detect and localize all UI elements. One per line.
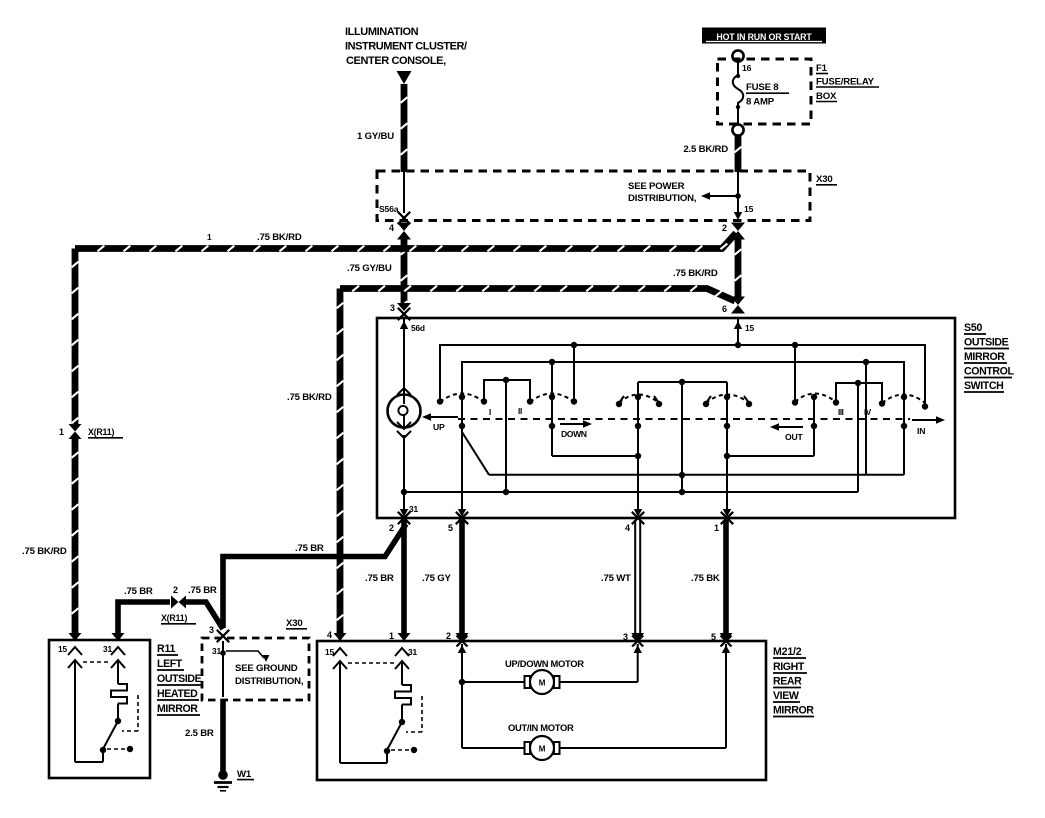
svg-text:FUSE 8: FUSE 8 (746, 82, 779, 93)
svg-text:3: 3 (623, 632, 628, 642)
wire node 31 horizontal in S50 (404, 491, 858, 493)
wire .75 GY/BU vertical (401, 239, 408, 307)
switch DOWN contact group (530, 362, 641, 459)
connector ring bottom of fuse F1 (732, 124, 743, 135)
lamp illumination in S50 (388, 388, 421, 438)
svg-text:S56a: S56a (379, 204, 399, 214)
switch UP contact group (440, 394, 484, 511)
connector pin 2 bowtie (X30) (722, 223, 745, 240)
wire dashed pin link R11 (83, 661, 110, 663)
svg-text:16: 16 (742, 63, 752, 73)
svg-text:R11: R11 (157, 643, 176, 655)
wire motor feed junction (459, 679, 465, 748)
label .75 WT (601, 573, 631, 584)
svg-text:II: II (518, 407, 522, 416)
label S50 OUTSIDE MIRROR CONTROL SWITCH (964, 322, 1015, 392)
label .75 BK/RD (left) (22, 546, 67, 557)
svg-text:FUSE/RELAY: FUSE/RELAY (816, 77, 875, 88)
wire .75 BK/RD left drop to X(R11) (72, 249, 79, 425)
wire .75 BR branch diagonal-left (223, 524, 406, 628)
svg-text:SWITCH: SWITCH (964, 380, 1003, 392)
svg-text:M: M (539, 745, 546, 754)
svg-text:UP: UP (433, 422, 445, 432)
label .75 BR (R11) (124, 586, 153, 597)
switch OUT contact group (727, 394, 836, 457)
svg-text:.75 BK: .75 BK (691, 573, 720, 584)
wire .75 WT S50 pin4 to M21/2 pin3 (631, 520, 644, 641)
arrow to power distribution (701, 192, 741, 200)
svg-text:HOT IN RUN OR START: HOT IN RUN OR START (716, 32, 812, 42)
svg-text:DISTRIBUTION,: DISTRIBUTION, (628, 193, 697, 204)
label X30 (ground) (286, 618, 307, 629)
svg-text:1: 1 (714, 523, 719, 533)
label .75 BK/RD (top) (257, 232, 302, 243)
label .75 BK/RD (mid) (673, 268, 718, 279)
wire lamp to node 31 (401, 435, 407, 495)
svg-text:.75 GY/BU: .75 GY/BU (347, 263, 392, 274)
label W1 (237, 769, 254, 780)
svg-text:CONTROL: CONTROL (964, 366, 1015, 378)
pin 15 of X30 (power) (734, 171, 754, 220)
svg-text:1: 1 (207, 232, 212, 242)
label IN with arrow (912, 416, 945, 436)
svg-text:4: 4 (389, 223, 394, 233)
wire dashed pin link M21/2 (348, 662, 394, 664)
svg-text:X30: X30 (816, 174, 832, 185)
wire .75 BK S50 pin1 to M21/2 pin5 (720, 520, 733, 641)
svg-text:6: 6 (722, 304, 727, 314)
label HOT IN RUN OR START (702, 28, 826, 44)
label F1 FUSE/RELAY BOX (816, 63, 879, 102)
label .75 BK/RD (right drop) (287, 392, 332, 403)
svg-text:.75 BK/RD: .75 BK/RD (673, 268, 718, 279)
connector X(R11) pin 2 (171, 585, 186, 609)
svg-text:CENTER CONSOLE,: CENTER CONSOLE, (346, 55, 446, 67)
svg-text:BOX: BOX (816, 91, 837, 102)
svg-text:2: 2 (446, 631, 451, 641)
label 2.5 BR (185, 728, 214, 739)
svg-text:5: 5 (448, 523, 453, 533)
svg-text:M: M (539, 679, 546, 688)
wire lower link in S50 (489, 474, 904, 476)
label OUT with arrow (770, 423, 803, 442)
label DOWN with arrow (560, 420, 592, 439)
wire 2.5 BK/RD between connectors (735, 239, 742, 297)
connector pin 4 bowtie (X30) (389, 223, 411, 240)
fuse F1 FUSE 8 8AMP element (733, 62, 744, 125)
svg-text:15: 15 (745, 323, 754, 333)
svg-text:DISTRIBUTION,: DISTRIBUTION, (235, 676, 304, 687)
label OUT/IN MOTOR (508, 722, 574, 733)
label 2.5 BK/RD (683, 144, 728, 155)
wire .75 GY S50 pin5 to M21/2 pin2 (456, 520, 469, 641)
svg-text:2: 2 (722, 223, 727, 233)
svg-text:W1: W1 (237, 769, 252, 780)
svg-text:OUT/IN MOTOR: OUT/IN MOTOR (508, 722, 574, 733)
wire .75 BK/RD drop to M21/2 pin 15 (334, 289, 347, 642)
svg-text:2: 2 (389, 523, 394, 533)
svg-text:1: 1 (389, 631, 394, 641)
svg-text:LEFT: LEFT (157, 658, 183, 670)
heater element M21/2 (395, 661, 411, 725)
wire .75 BK/RD to R11 (horizontal) (75, 233, 736, 251)
svg-text:2.5 BR: 2.5 BR (185, 728, 214, 739)
wire B pivot rail in S50 (462, 359, 904, 397)
svg-text:15: 15 (58, 644, 67, 654)
svg-text:31: 31 (212, 646, 221, 656)
svg-text:MIRROR: MIRROR (773, 705, 814, 717)
label UP/DOWN MOTOR (505, 658, 584, 669)
label 1 GY/BU (357, 131, 394, 142)
label footnote 1 (207, 232, 212, 242)
label UP with arrow (422, 413, 458, 432)
svg-text:UP/DOWN MOTOR: UP/DOWN MOTOR (505, 658, 584, 669)
connector X30 power distribution box (dashed) (377, 171, 810, 221)
pin 3 of ground connector X30 (209, 625, 229, 642)
wire 2.5 BR to ground W1 (220, 699, 226, 772)
svg-text:56d: 56d (411, 323, 425, 333)
svg-text:1: 1 (59, 427, 64, 437)
fuse/relay box F1 (dashed) (718, 59, 812, 124)
label 2 .75 BR (188, 585, 217, 596)
svg-text:DOWN: DOWN (561, 429, 587, 439)
svg-text:.75 BK/RD: .75 BK/RD (257, 232, 302, 243)
wire 2.5 BK/RD fuse to X30 (735, 136, 742, 173)
resistor R11 left outside heated mirror box (49, 640, 150, 778)
thermo linkage M21/2 (dashed) (406, 696, 422, 732)
label .75 BR (column) (365, 573, 394, 584)
switch group III pole to pin 4 (616, 382, 662, 533)
op S50 outside mirror control switch box (377, 318, 955, 518)
svg-text:.75 BR: .75 BR (124, 586, 153, 597)
wire .75 BK/RD to R11 pin 15 (69, 439, 82, 641)
svg-text:.75 WT: .75 WT (601, 573, 631, 584)
ground W1 (214, 770, 232, 791)
pin 31 of M21/2 (395, 647, 417, 669)
wire 1 GY/BU from illumination (arrow + hatched drop) (397, 71, 412, 172)
connector pin 6 bowtie (S50) (722, 297, 745, 315)
pin 15 of R11 (58, 644, 82, 668)
label R11 LEFT OUTSIDE HEATED MIRROR (157, 643, 202, 715)
pin 5 bottom of S50 (448, 509, 468, 533)
wire UP pivot diagonal (462, 432, 489, 475)
svg-text:I: I (489, 408, 491, 417)
svg-text:OUTSIDE: OUTSIDE (157, 673, 202, 685)
svg-text:REAR: REAR (773, 676, 802, 688)
wire .75 BR S50 pin2 to M21/2 pin1 (398, 520, 411, 641)
svg-text:3: 3 (209, 625, 214, 635)
svg-text:MIRROR: MIRROR (964, 351, 1005, 363)
svg-text:ILLUMINATION: ILLUMINATION (345, 26, 419, 38)
svg-text:SEE GROUND: SEE GROUND (235, 663, 298, 674)
motor assembly M21/2 right rear view mirror box (317, 641, 766, 780)
node ILLUMINATION feed label (345, 26, 467, 67)
connector X30 ground distribution box (dashed) (202, 638, 309, 700)
pin 2 of M21/2 (457, 636, 468, 683)
heater element R11 (111, 660, 127, 724)
label .75 GY (422, 573, 451, 584)
svg-text:.75 BR: .75 BR (295, 543, 324, 554)
wire mechanical coupling (dashed) (458, 418, 910, 420)
svg-text:3: 3 (390, 303, 395, 313)
pin labels above M21/2 (327, 630, 716, 642)
pin S56a of X30 (379, 171, 410, 224)
thermo linkage R11 (dashed) (122, 695, 138, 731)
svg-text:.75 BR: .75 BR (365, 573, 394, 584)
wire motor rail in S50 (638, 379, 727, 495)
svg-text:15: 15 (744, 204, 754, 214)
node contacts I II tee (481, 377, 533, 495)
label FUSE 8 / 8 AMP (746, 82, 789, 108)
svg-text:III: III (838, 408, 844, 417)
pin 3 56d of S50 (390, 303, 425, 394)
svg-text:F1: F1 (816, 63, 828, 74)
wire .75 BK/RD from S50 pin 6 (horizontal) (340, 286, 735, 301)
wire .75 BR from R11 pin 31 (112, 602, 171, 641)
svg-text:INSTRUMENT CLUSTER/: INSTRUMENT CLUSTER/ (345, 41, 467, 53)
svg-text:IN: IN (917, 426, 925, 436)
node contacts III IV tee (833, 380, 885, 492)
svg-text:1 GY/BU: 1 GY/BU (357, 131, 394, 142)
connector ring top of fuse F1 (732, 50, 743, 61)
label SEE GROUND DISTRIBUTION (235, 663, 304, 687)
label .75 GY/BU (347, 263, 392, 274)
label X(R11) upper (88, 427, 123, 438)
svg-text:VIEW: VIEW (773, 690, 799, 702)
svg-text:31: 31 (103, 644, 112, 654)
svg-text:4: 4 (625, 523, 630, 533)
svg-text:S50: S50 (964, 322, 983, 334)
pin 15 of M21/2 (325, 647, 347, 669)
motor M out/in (462, 736, 726, 760)
svg-text:OUTSIDE: OUTSIDE (964, 337, 1009, 349)
label .75 BK (691, 573, 720, 584)
switch IN contact group (866, 362, 925, 475)
svg-text:8 AMP: 8 AMP (746, 97, 775, 108)
svg-text:.75 BR: .75 BR (188, 585, 217, 596)
label .75 BR (horizontal) (295, 543, 324, 554)
pin 2 31 bottom of S50 (389, 492, 418, 533)
svg-text:X30: X30 (286, 618, 302, 629)
svg-text:SEE POWER: SEE POWER (628, 181, 685, 192)
pin 6 15 of S50 (734, 318, 755, 345)
label X(R11) lower (161, 613, 196, 624)
svg-text:.75 GY: .75 GY (422, 573, 451, 584)
svg-text:5: 5 (711, 632, 716, 642)
svg-text:X(R11): X(R11) (161, 613, 187, 623)
svg-text:OUT: OUT (785, 432, 803, 442)
wire .75 BR to ground node (186, 602, 223, 629)
svg-text:4: 4 (327, 630, 332, 640)
svg-text:.75 BK/RD: .75 BK/RD (287, 392, 332, 403)
thermo switch M21/2 (340, 661, 417, 763)
pin 16 label (742, 63, 752, 73)
wire A supply rail in S50 (437, 342, 928, 410)
svg-text:.75 BK/RD: .75 BK/RD (22, 546, 67, 557)
label M21/2 RIGHT REAR VIEW MIRROR (773, 646, 814, 717)
thermo switch R11 (75, 660, 133, 762)
svg-text:RIGHT: RIGHT (773, 661, 805, 673)
pin 5 of M21/2 (721, 636, 732, 749)
arrow to ground distribution (226, 651, 269, 662)
svg-text:X(R11): X(R11) (88, 427, 114, 437)
svg-text:MIRROR: MIRROR (157, 703, 198, 715)
label SEE POWER DISTRIBUTION (628, 181, 697, 204)
connector X(R11) pin 1 (59, 424, 82, 439)
svg-text:2: 2 (173, 585, 178, 595)
svg-text:HEATED: HEATED (157, 688, 198, 700)
svg-text:M21/2: M21/2 (773, 646, 802, 658)
pin 31 ground (212, 641, 226, 697)
label X30 (power) (816, 174, 837, 185)
motor M up/down (462, 670, 638, 694)
pin 3 of M21/2 (632, 636, 643, 683)
svg-text:2.5 BK/RD: 2.5 BK/RD (683, 144, 728, 155)
switch group IV pole to pin 1 (703, 382, 752, 533)
pin 31 of R11 (103, 644, 125, 668)
